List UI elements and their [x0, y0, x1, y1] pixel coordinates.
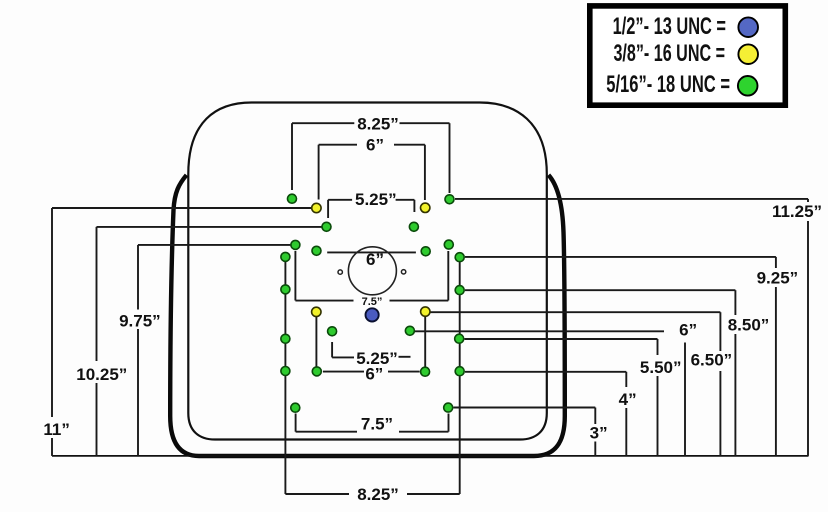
- dimension 7.5 inch upper bracket: [295, 251, 448, 308]
- hole 3/8 yellow top left: [312, 203, 321, 212]
- hole 3/8 yellow top right: [421, 203, 430, 212]
- svg-text:8.25”: 8.25”: [357, 114, 399, 133]
- dimension 9.25 inch right: [465, 257, 798, 456]
- hole 5/16 green rail left row3: [281, 334, 290, 343]
- svg-text:9.25”: 9.25”: [757, 269, 799, 288]
- svg-text:6”: 6”: [366, 135, 384, 154]
- svg-text:3”: 3”: [590, 424, 608, 443]
- svg-text:3/8”- 16 UNC =: 3/8”- 16 UNC =: [613, 40, 725, 67]
- hole 5/16 green top-outer left: [288, 194, 297, 203]
- hole 5/16 green 7.5-span right: [444, 240, 453, 249]
- dimension 11.25 inch right: [455, 199, 822, 456]
- dimension 6 inch bottom line: [323, 364, 420, 383]
- svg-text:5.50”: 5.50”: [640, 358, 682, 377]
- hole 5/16 green top-outer right: [445, 195, 454, 204]
- dimension 6 inch middle line: [327, 250, 416, 269]
- hole 5/16 green 6-span mid right: [421, 247, 430, 256]
- seat inner outline: [188, 103, 547, 440]
- dimension 5.25 inch lower bracket: [332, 342, 410, 368]
- left hole column rail: [284, 257, 286, 494]
- hole 3/8 yellow lower left: [312, 307, 321, 316]
- svg-text:6.50”: 6.50”: [691, 351, 733, 370]
- hole 5/16 green bottom 7.5-span right: [444, 403, 453, 412]
- svg-text:8.25”: 8.25”: [357, 485, 399, 504]
- center circle 6 inch: [348, 247, 396, 295]
- small pilot hole right: [401, 270, 405, 274]
- hole 5/16 green upper-inner left: [322, 222, 331, 231]
- dimension 5.25 inch top: [328, 190, 414, 218]
- hole 5/16 green rail left row1: [281, 252, 290, 261]
- dimension 8.25 inch top: [292, 114, 450, 193]
- hole 1/2 blue center: [366, 308, 379, 321]
- hole 5/16 green rail right row1: [455, 253, 464, 262]
- dimension 10.25 inch left: [76, 227, 321, 456]
- dimension 3 inch right: [454, 408, 608, 456]
- hole 5/16 green 6-span mid left: [312, 246, 321, 255]
- svg-text:5.25”: 5.25”: [355, 190, 397, 209]
- hole 5/16 green upper-inner right: [409, 222, 418, 231]
- baseline: [52, 455, 809, 457]
- hole 5/16 green bottom 7.5-span left: [291, 403, 300, 412]
- seat outer skirt: [170, 175, 565, 456]
- hole 5/16 green rail left row4: [281, 367, 290, 376]
- yellow column rail right: [424, 312, 426, 372]
- svg-text:6”: 6”: [365, 364, 383, 383]
- hole 5/16 green 6-span bottom right: [421, 367, 430, 376]
- svg-text:11”: 11”: [43, 420, 69, 439]
- hole 3/8 yellow lower right: [421, 307, 430, 316]
- svg-text:11.25”: 11.25”: [772, 202, 822, 221]
- right hole column rail: [459, 257, 461, 494]
- hole 5/16 green rail right row4: [455, 367, 464, 376]
- svg-text:7.5”: 7.5”: [362, 296, 383, 308]
- hole 5/16 green 7.5-span left: [291, 240, 300, 249]
- dimension 6.50 inch right: [431, 312, 733, 456]
- legend box: [590, 6, 786, 105]
- svg-text:9.75”: 9.75”: [119, 312, 161, 331]
- svg-text:6”: 6”: [366, 250, 384, 269]
- svg-text:6”: 6”: [679, 321, 697, 340]
- dimension 4 inch right: [465, 372, 637, 456]
- dimension 8.50 inch right: [465, 290, 769, 456]
- legend row 1/2-13 UNC: [613, 13, 758, 40]
- yellow column rail left: [315, 312, 317, 371]
- svg-text:4”: 4”: [619, 390, 637, 409]
- dimension 6 inch right: [415, 321, 697, 456]
- small pilot hole left: [338, 270, 342, 274]
- hole 5/16 green 5.25-span right: [405, 326, 414, 335]
- hole 5/16 green rail right row3: [455, 334, 464, 343]
- dimension 5.50 inch right: [465, 339, 682, 456]
- dimension 11 inch left: [43, 208, 311, 456]
- dimension 6 inch top: [319, 135, 425, 200]
- dimension 7.5 inch bottom bracket: [296, 414, 449, 434]
- legend row 3/8-16 UNC: [613, 40, 758, 67]
- svg-text:8.50”: 8.50”: [728, 315, 770, 334]
- dimension 9.75 inch left: [119, 245, 290, 456]
- svg-text:5/16”- 18 UNC =: 5/16”- 18 UNC =: [606, 71, 730, 98]
- legend row 5/16-18 UNC: [606, 71, 757, 98]
- svg-text:1/2”- 13 UNC =: 1/2”- 13 UNC =: [613, 13, 726, 40]
- hole 5/16 green rail left row2: [281, 285, 290, 294]
- hole 5/16 green rail right row2: [455, 286, 464, 295]
- dimension 8.25 inch bottom bracket: [285, 485, 459, 504]
- svg-text:10.25”: 10.25”: [76, 365, 127, 384]
- svg-text:7.5”: 7.5”: [361, 415, 393, 434]
- hole 5/16 green 6-span bottom left: [312, 367, 321, 376]
- hole 5/16 green 5.25-span left: [328, 327, 337, 336]
